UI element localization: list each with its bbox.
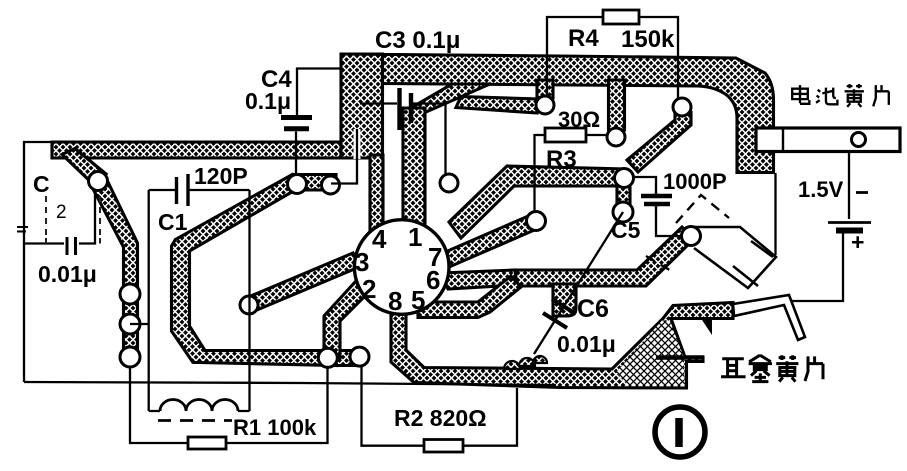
svg-text:0.01μ: 0.01μ <box>557 331 616 357</box>
wire: trace D2 IC to R3 pad <box>443 214 539 267</box>
wire: left diagonal from pad A to stacked pads <box>92 178 138 358</box>
svg-text:C6: C6 <box>577 295 609 323</box>
wire: trace D4 IC pin5 band bending up <box>418 276 521 318</box>
figure number circle <box>655 407 705 457</box>
node: stacked pad 2 <box>120 314 140 334</box>
wire: trace E2 IC pin2 down to pad <box>324 281 368 358</box>
svg-text:R4: R4 <box>568 25 599 52</box>
node: R2 pad <box>350 347 369 366</box>
wire: C1 top leads <box>149 189 250 191</box>
svg-text:6: 6 <box>426 265 440 295</box>
wire: C3 left lead <box>360 102 397 104</box>
capacitor C2 (dashed outline) <box>46 196 100 255</box>
wire: C1 tank right vertical <box>248 190 250 411</box>
wire: trace E3 IC pin8 down and right along bottom to ground area <box>391 303 733 389</box>
earphone spring strip <box>733 295 805 340</box>
wire: pad to pin4 strip <box>331 158 357 184</box>
node: C6 pad <box>613 202 633 222</box>
wire: big left loop trace around C1 <box>172 175 338 366</box>
node: R1 pad <box>318 348 337 367</box>
node: R3 left pad <box>527 212 546 231</box>
wire: coil leads <box>149 410 250 412</box>
inductor L1 coil <box>160 400 238 411</box>
wire: diagonal into pin1 strip <box>404 84 490 112</box>
edge tick mark <box>17 227 28 232</box>
wire: C1 tank left vertical <box>148 190 150 411</box>
svg-text:150k: 150k <box>621 26 675 53</box>
wire: C6 lead diagonal <box>534 212 623 354</box>
svg-text:2: 2 <box>56 202 67 223</box>
earphone dashed outline <box>646 195 729 272</box>
svg-text:8: 8 <box>388 286 402 316</box>
wire: C6 stub under band <box>553 284 576 316</box>
wire: trace D1 IC pin7 to junction pad <box>449 166 626 238</box>
wire: C3 right lead down to pad <box>413 104 446 177</box>
wire: stub to second bottom pad <box>330 351 362 366</box>
node: R4 right pad <box>673 98 691 116</box>
svg-text:120P: 120P <box>194 163 248 189</box>
wire: R3 right lead <box>586 134 608 136</box>
svg-text:1: 1 <box>408 222 422 252</box>
svg-text:1000P: 1000P <box>663 169 727 194</box>
wire: R1 to pad R1 <box>226 367 328 443</box>
op-amp IC U1 (round package, top view) <box>354 220 449 315</box>
wire: pad2 lead crossing copper with halo <box>354 129 361 159</box>
solder bump 1 <box>504 361 520 369</box>
capacitor C5 plates <box>641 196 672 204</box>
capacitor C3 plates <box>400 88 412 130</box>
node: R4 left pad <box>536 96 554 114</box>
wire: board left edge <box>24 142 60 382</box>
inductor core dashed line <box>158 419 232 422</box>
solder bump 3 <box>533 356 547 363</box>
node A: pad top-left <box>89 172 108 191</box>
wire: battery contact to cell <box>848 152 850 219</box>
wire: C5 bottom lead to earphone pad <box>656 206 683 236</box>
svg-text:C5: C5 <box>611 217 641 243</box>
label earphone spring (Chinese) <box>721 355 823 381</box>
battery contact plate <box>756 128 900 152</box>
node: coil pad <box>240 296 258 314</box>
ground rising hatch overlay <box>616 321 685 387</box>
svg-text:C: C <box>33 171 50 197</box>
wire: pad3 down to R1 <box>130 366 188 443</box>
wire: top-left supply band <box>52 142 341 158</box>
resistor R4 <box>603 10 639 24</box>
spring solder mark <box>702 320 712 335</box>
battery cell 1.5V <box>828 221 871 224</box>
svg-text:4: 4 <box>372 224 387 254</box>
wire: pin6 diagonal to band <box>441 270 517 289</box>
wire: trace pins 5-6 horizontal band to earphone pad <box>513 227 694 286</box>
node: junction pad C5 <box>615 169 634 188</box>
wire: R4 right lead <box>639 17 678 99</box>
wire: cell to earphone line <box>781 233 843 301</box>
capacitor C1 plates <box>177 174 189 206</box>
wire: pin1 strip down to IC <box>403 108 425 230</box>
wire: C2 left lead to rail <box>24 242 64 244</box>
wire: right vertical return <box>774 173 776 255</box>
svg-text:5: 5 <box>411 285 425 315</box>
wire: C2 right lead up to pad A <box>79 190 95 244</box>
node: stacked pad 1 <box>120 284 140 304</box>
svg-text:2: 2 <box>362 274 376 304</box>
svg-text:1.5V: 1.5V <box>798 177 844 202</box>
wire: C5 top lead <box>632 177 656 194</box>
wire: top B+ band with right-hand descent to battery contact <box>341 54 774 173</box>
wire: R4 left lead <box>547 17 603 97</box>
earphone plug body <box>694 227 776 288</box>
wire: trace from R4-right pad down to junction pad <box>627 104 691 172</box>
svg-text:30Ω: 30Ω <box>558 107 600 132</box>
earphone bracket line <box>656 355 704 360</box>
wire: strip between junction pad and C6 pad <box>617 178 630 212</box>
wire: pad R2 down to R2 <box>362 366 425 446</box>
wire: trace E1 IC pin3 to coil pad <box>246 253 359 312</box>
wire: stub band down to pad R3-right <box>609 80 625 130</box>
wire: stub from band to pad A <box>62 149 106 186</box>
wire: pin4 strip down to IC <box>370 155 383 236</box>
svg-text:0.1μ: 0.1μ <box>245 88 291 114</box>
node: stacked pad 3 <box>120 347 140 367</box>
svg-text:+: + <box>851 229 864 255</box>
node: earphone pad <box>682 227 701 246</box>
capacitor C6 plates <box>543 299 576 328</box>
svg-text:R1 100k: R1 100k <box>233 415 317 440</box>
wire: pad2 to tank <box>130 323 149 325</box>
wire: pads bridge C4 node <box>293 175 336 191</box>
svg-text:R3: R3 <box>546 146 577 173</box>
wire: long bottom common line <box>24 382 556 385</box>
wire: stub band to pad R4-left <box>537 80 553 98</box>
svg-text:C3 0.1μ: C3 0.1μ <box>375 27 460 54</box>
wire: shallow band to R4 left pad <box>456 97 538 114</box>
node: C4 pad left <box>288 175 307 194</box>
node: R3 right pad <box>607 128 625 146</box>
wire: R2 up to ground blob <box>463 388 517 446</box>
node: C4 pad right <box>322 176 340 194</box>
resistor R3 <box>545 128 586 142</box>
wire: C4 bottom lead to pad <box>295 132 297 177</box>
wire: C4 top lead to B+ <box>297 69 341 116</box>
solder bump 2 <box>519 358 535 366</box>
node: C3 pad <box>440 174 458 192</box>
svg-text:R2 820Ω: R2 820Ω <box>394 405 487 431</box>
label battery spring (Chinese) <box>792 84 889 107</box>
wire: B+ column above IC <box>341 54 383 158</box>
resistor R1 <box>188 437 226 449</box>
svg-text:3: 3 <box>355 247 369 277</box>
wire: R3 left lead down to pad <box>535 135 546 213</box>
resistor R2 <box>424 440 463 453</box>
svg-text:0.01μ: 0.01μ <box>38 261 97 287</box>
svg-text:C1: C1 <box>158 209 188 235</box>
capacitor C4 plates <box>281 118 312 129</box>
